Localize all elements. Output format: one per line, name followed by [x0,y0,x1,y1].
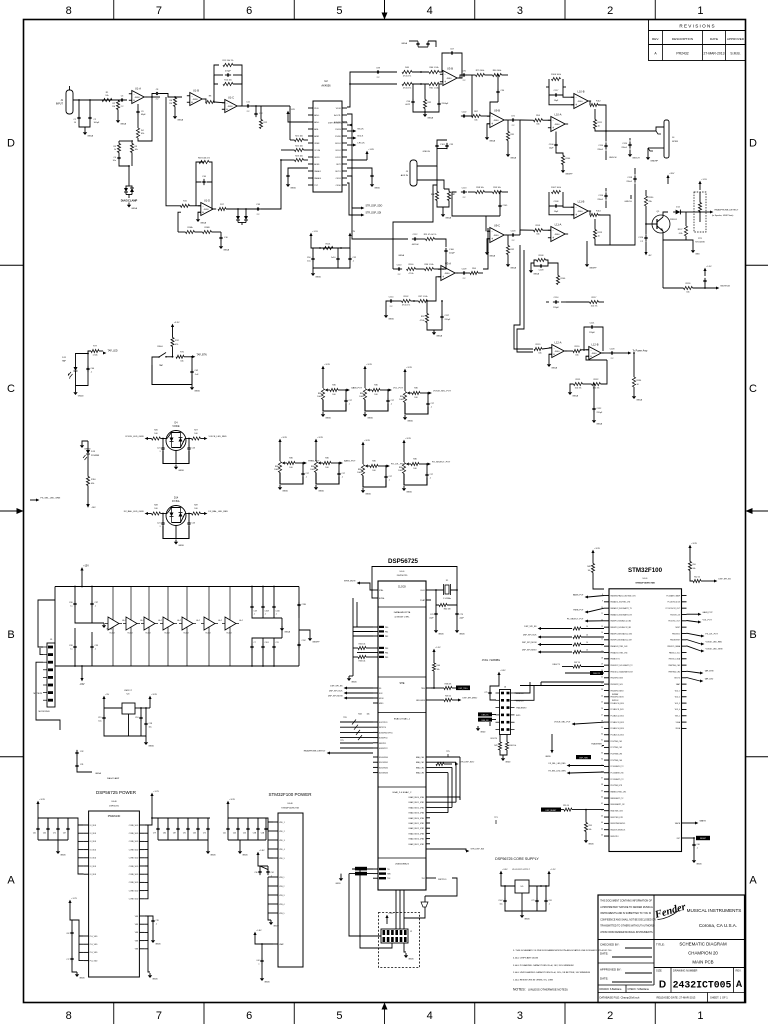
ground buffer far right [299,630,310,636]
svg-text:CKS1: CKS1 [336,178,342,180]
svg-text:SDTO: SDTO [335,171,341,173]
svg-text:4560: 4560 [578,101,584,103]
svg-text:1. ALL RESISTORS IN OHMS, 5%,: 1. ALL RESISTORS IN OHMS, 5%, 1/8W [513,979,554,982]
svg-text:GNDD: GNDD [242,854,248,856]
resistor R132 [592,382,601,385]
svg-text:DESCRIPTION: DESCRIPTION [672,37,693,41]
IC U7 power block [278,813,303,967]
svg-text:C11C: C11C [302,640,307,642]
svg-text:10k: 10k [575,355,578,357]
net label TAP_LED [99,350,103,352]
svg-text:LRCLK: LRCLK [358,143,366,145]
svg-text:SIZE: SIZE [656,969,662,973]
net label VOL_POT [389,389,392,392]
svg-text:R36: R36 [413,459,416,461]
svg-text:FX_BAL_LED_RED: FX_BAL_LED_RED [209,510,229,513]
resistor R91b [426,237,435,240]
capacitor C12 [255,111,257,114]
power +1.8V codec right [366,154,368,160]
power +1.5V small [310,236,312,242]
dsp pwr right caps [144,803,152,825]
svg-text:+3.3V: +3.3V [151,694,157,696]
svg-text:10pF: 10pF [554,100,559,102]
resistor R3 [130,144,133,153]
jtag left labels [478,712,492,716]
svg-text:C23: C23 [192,448,195,450]
svg-text:ESAI2_SDO3_LPB3: ESAI2_SDO3_LPB3 [409,832,424,835]
svg-text:GNDA: GNDA [445,216,451,219]
svg-text:ESAI2_SDO2_LPB2: ESAI2_SDO2_LPB2 [409,806,424,809]
aux jack J3 [410,160,417,186]
ground A1 [413,105,439,113]
capacitor C81 core [545,898,547,901]
svg-text:MICROPHN: MICROPHN [39,711,50,713]
svg-text:10k: 10k [589,829,592,831]
ground U9B [487,124,490,135]
IC U7 STM32F100 main [609,589,682,852]
resistor R111 [593,120,596,129]
revisions table [649,20,746,61]
ground jtag [489,722,491,726]
svg-text:4560: 4560 [445,273,451,275]
svg-text:100: 100 [332,394,335,396]
svg-text:TP1: TP1 [494,817,497,819]
svg-text:+1.8V: +1.8V [256,930,262,932]
svg-text:10u: 10u [98,721,101,723]
svg-text:DSP56725 POWER: DSP56725 POWER [96,790,137,795]
svg-text:GNDA: GNDA [436,334,442,337]
svg-text:27: 27 [601,714,603,716]
svg-text:10k: 10k [105,95,108,97]
svg-text:SCKR/HCKT/PC5: SCKR/HCKT/PC5 [379,732,393,734]
svg-text:+3.3V: +3.3V [594,548,600,550]
svg-text:VSS_3: VSS_3 [279,895,284,897]
resistor R131 [574,382,583,385]
sig fx lvl pot right [687,633,702,636]
svg-text:STR_DSP_SDI: STR_DSP_SDI [366,213,382,215]
capacitor filter VOL_POT [387,398,389,401]
capacitor C42 [191,369,193,372]
diode D1 [124,188,128,192]
wire to bus [261,160,281,209]
spi rows stm [538,627,541,630]
buffer out caps right C7 [251,644,253,647]
capacitor C9 feedback [137,109,139,112]
svg-text:JTAG/DEBUG: JTAG/DEBUG [395,863,409,866]
svg-text:220pF: 220pF [449,253,455,255]
svg-text:DSP_TRIG: DSP_TRIG [459,688,469,690]
database file row [598,992,745,994]
feedback capacitor C36 [203,179,205,182]
svg-text:L10-A: L10-A [555,112,562,116]
feedback resistor R79 [476,73,485,76]
dsp she pins left [373,687,378,689]
capacitor C110b [396,268,399,270]
svg-text:PC7/TIM3_CH2: PC7/TIM3_CH2 [611,747,623,749]
title block [598,895,745,1003]
svg-text:4558: 4558 [228,106,234,108]
svg-text:GNDHP: GNDHP [565,173,573,175]
wire feedback U1C [214,65,219,84]
codec control label [349,124,352,127]
resistor R101s [323,246,333,249]
net label VOICE_SEL_POT [429,392,432,395]
svg-text:GNDD: GNDD [365,493,371,495]
sig dsp spi ss right [701,580,714,582]
potentiometer VOICE_SEL_POT [403,392,406,403]
net label TAP_BTN [184,356,192,358]
svg-text:FSR/PC1: FSR/PC1 [379,743,386,745]
svg-text:15: 15 [601,638,603,640]
boxed label dsp jtag [576,755,591,759]
svg-text:C101: C101 [265,642,269,644]
wire R16 chain [178,212,181,232]
svg-text:100: 100 [325,467,328,469]
svg-text:R26: R26 [154,430,157,432]
capacitor C11B right [298,602,300,605]
svg-text:IO_VDD: IO_VDD [90,866,97,868]
wire power led [87,454,89,477]
svg-text:.1: .1 [265,614,267,616]
svg-text:C79: C79 [460,614,463,616]
svg-text:RST: RST [677,838,680,840]
wire core gnd rail [505,904,546,912]
svg-text:U1-D: U1-D [204,198,210,202]
resistor R52 stm [693,579,701,582]
svg-text:4560: 4560 [555,124,561,126]
svg-text:+3.3V: +3.3V [405,438,411,440]
svg-text:10: 10 [586,642,588,644]
resistor R23 codec in 3 [295,158,304,161]
power +3.3V for TREB_POT [279,442,281,461]
sig tap btn right [687,671,701,673]
svg-text:CORE_VDD: CORE_VDD [129,858,139,860]
svg-text:1M: 1M [169,103,172,105]
svg-text:SHEET: 1 OF 1: SHEET: 1 OF 1 [710,996,728,1000]
svg-text:5: 5 [336,5,342,17]
svg-text:+1V: +1V [351,231,355,233]
svg-text:47.0k 1%: 47.0k 1% [402,305,411,307]
svg-text:CORE_VDD: CORE_VDD [129,899,139,901]
svg-text:R27: R27 [194,430,197,432]
svg-text:3: 3 [517,1010,523,1022]
svg-text:CORE_VDD: CORE_VDD [129,882,139,884]
svg-text:PC14/OSC32_IN: PC14/OSC32_IN [668,602,681,604]
svg-text:R58: R58 [589,825,592,827]
svg-text:C17: C17 [342,473,345,475]
dsp pwr left pins pll [84,935,89,937]
svg-text:GNDA: GNDA [489,139,495,142]
dashed program header box [379,913,420,968]
svg-text:DIAG/CLAMP: DIAG/CLAMP [107,777,120,780]
svg-text:PB2/BOOT1: PB2/BOOT1 [611,659,620,661]
svg-text:JTAG / SWDBG: JTAG / SWDBG [482,658,500,662]
svg-text:46: 46 [601,835,603,837]
ground R134 [633,387,635,394]
svg-text:DSP/TDO: DSP/TDO [438,879,447,881]
capacitor C30 [74,601,76,604]
svg-text:-16V: -16V [91,507,96,509]
ground jack [647,155,649,157]
wire B1 to line [519,120,521,235]
zone tick top [384,0,386,20]
resistor R61 [429,82,439,85]
sig dsp trig label [456,686,470,691]
svg-text:10kB: 10kB [359,396,364,398]
sig dsp spi miso out [452,699,458,701]
regulator U5 box [515,880,529,893]
svg-text:VDD_1: VDD_1 [279,822,285,824]
svg-text:+: + [575,213,577,217]
svg-text:.1: .1 [159,451,161,453]
ground R58 [585,832,587,839]
svg-text:-: - [133,92,134,96]
svg-text:PB14/SPI2_MISO: PB14/SPI2_MISO [611,690,625,692]
resistor R130 [644,196,647,206]
svg-text:10u: 10u [113,160,116,162]
capacitor C105 [499,203,501,206]
svg-text:PB3: PB3 [385,648,388,650]
ground C78 [152,924,154,939]
svg-text:+1.2V: +1.2V [153,791,159,793]
svg-text:10kB: 10kB [398,470,403,472]
svg-text:DSP_SPI_SCK: DSP_SPI_SCK [329,691,343,693]
capacitor C1 [78,115,80,118]
zone tick top [113,0,115,20]
svg-text:TP5: TP5 [340,740,343,742]
resistor R48 stm [591,564,594,573]
input jack J1 [66,90,73,114]
capacitor C120 [629,141,631,144]
power +1.8V vbat [254,935,256,941]
svg-text:FX_SELECT_POT: FX_SELECT_POT [567,619,584,621]
svg-text:HEADPHONE_DETECT: HEADPHONE_DETECT [304,750,327,753]
resistor series VOL_POT [372,388,380,391]
power +5V reg [103,699,105,708]
svg-text:GNDA: GNDA [177,118,183,121]
svg-text:AUX IN: AUX IN [401,174,409,177]
svg-text:C79: C79 [153,833,156,835]
svg-text:DSP56725 CORE SUPPLY: DSP56725 CORE SUPPLY [495,857,539,861]
wire U1A out [147,96,161,98]
svg-text:MUSICAL INSTRUMENTS: MUSICAL INSTRUMENTS [687,908,742,913]
wire J5 to buffers [38,600,55,647]
resistor R92v a2 [425,314,428,323]
drawn row [598,984,654,986]
power +1.8V codec left [287,114,289,120]
svg-text:PD2/TIM3_ETR: PD2/TIM3_ETR [611,785,623,787]
reset row stm [541,808,561,812]
power +3.3V for FX_LVL_POT [362,445,364,464]
svg-text:R79 100k: R79 100k [476,70,485,72]
capacitor C11 [245,105,248,107]
svg-text:C15: C15 [98,717,101,719]
svg-text:Corona, CA U.S.A.: Corona, CA U.S.A. [699,923,737,928]
zone tick top [203,0,205,20]
svg-text:NRST: NRST [676,627,680,629]
svg-text:14: 14 [601,632,603,634]
wire FX_LVL_POT node [378,465,386,467]
svg-text:XTAL: XTAL [379,589,383,592]
svg-text:.1: .1 [430,478,432,480]
ground C40 [693,848,695,859]
svg-text:TAP: TAP [62,360,67,363]
sig dsp spi sck [344,692,347,695]
dsp esai1 data pins [373,756,378,758]
svg-text:GNDD: GNDD [408,958,414,960]
svg-text:GNDD: GNDD [524,918,530,920]
resistor series FX_SELECT_POT [411,462,419,465]
svg-text:30: 30 [601,733,603,735]
svg-text:SMAD0: SMAD0 [314,177,322,180]
svg-text:FX BAL: FX BAL [172,500,181,503]
svg-text:GNDD: GNDD [588,843,594,845]
svg-text:FST/PC4: FST/PC4 [379,727,386,729]
capacitor C38b [74,644,76,647]
svg-text:PLL_VDD: PLL_VDD [90,960,98,962]
svg-text:10k: 10k [538,353,541,355]
wire header gnd [404,943,406,952]
net label FX_BAL_LED_GRN [148,513,152,515]
svg-text:C107: C107 [498,900,502,902]
net label VOICE_LED_RED [201,438,205,440]
svg-text:6: 6 [246,1010,252,1022]
wire crystal loop [431,589,444,591]
svg-text:34: 34 [601,759,603,761]
svg-text:3. ALL POLARIZED CAPACITORS I: 3. ALL POLARIZED CAPACITORS IN uF, 16V, … [513,964,574,967]
svg-text:47.0k: 47.0k [409,273,414,275]
reset net right [687,837,695,839]
svg-text:.2: .2 [156,924,157,926]
svg-text:R36: R36 [332,385,335,387]
svg-text:9: 9 [602,600,603,602]
svg-text:220uF: 220uF [621,147,627,149]
svg-text:TAP_BTN: TAP_BTN [197,353,208,356]
ground C122 [593,412,595,419]
resistor R117 [590,300,599,303]
capacitor C2 [89,115,91,118]
svg-text:VDD_3: VDD_3 [279,840,285,842]
resistor R22 codec in 2 [295,148,304,151]
wire tap led loop [75,371,77,386]
svg-text:CHAMPION 20: CHAMPION 20 [688,951,718,956]
resistor R87 [447,192,450,201]
sig fx select pot stm [585,620,588,623]
resistor R96b out [470,271,478,274]
wire jack sleeve [648,147,664,149]
svg-text:INSTRUMENTS AND IS SUBMITTED T: INSTRUMENTS AND IS SUBMITTED TO YOU IN [600,912,651,915]
power +26V [667,178,669,184]
svg-text:4560: 4560 [447,78,453,80]
ground header [405,953,407,955]
ground C114 [386,301,389,313]
op-amp L12-B [589,347,601,360]
svg-text:GNDD: GNDD [480,731,486,733]
svg-text:A: A [749,875,757,887]
resistor R110 power led [86,477,89,486]
svg-text:TL072: TL072 [127,633,132,635]
net label FX_SEL edge [36,499,39,502]
potentiometer VOL_POT [363,389,366,400]
svg-text:C17: C17 [389,476,392,478]
ground aux [437,201,449,208]
svg-text:D: D [659,980,666,991]
svg-text:AK4556: AK4556 [321,84,331,88]
wire pll pins [70,920,84,936]
svg-text:C: C [749,383,757,395]
svg-text:25: 25 [601,702,603,704]
svg-text:4: 4 [427,5,433,17]
svg-text:GNDD: GNDD [388,318,394,320]
svg-text:C41: C41 [223,833,226,835]
svg-text:MUTECB: MUTECB [34,693,43,695]
capacitor D14 FX BAL b [188,520,190,523]
capacitor C110 rail [605,142,607,145]
ground dsp left bus [349,675,353,677]
sig headphone detect dsp [327,752,330,755]
resistor R92v [506,246,509,255]
svg-text:IO_VDD: IO_VDD [90,858,97,860]
signal STR_DSP_SDI [347,183,361,215]
ground D4 VOICE [175,465,177,467]
svg-text:+3.3V: +3.3V [317,437,323,439]
svg-text:DSP_SPI_MISO: DSP_SPI_MISO [463,698,478,700]
svg-text:62k: 62k [141,133,144,135]
svg-text:C84: C84 [163,833,166,835]
svg-text:AOUTL: AOUTL [334,114,342,117]
svg-text:PB2: PB2 [385,636,388,638]
svg-text:VOL_POT: VOL_POT [393,388,404,390]
svg-text:VOL_POT: VOL_POT [703,620,713,622]
svg-text:7: 7 [156,1010,162,1022]
capacitor C106b [445,248,447,251]
svg-text:GNDA: GNDA [87,134,93,137]
svg-text:DATE: DATE [710,37,718,41]
svg-text:R106 100k: R106 100k [551,74,561,76]
potentiometer GAIN_POT [321,389,324,400]
svg-text:100: 100 [414,397,417,399]
svg-text:220uF: 220uF [597,149,603,151]
resistor R1 [102,98,112,101]
ground tap led [75,386,77,391]
svg-text:C40: C40 [697,844,700,846]
ground BASS_POT [315,485,317,487]
svg-text:ESAI2_SDO0_LPB0: ESAI2_SDO0_LPB0 [409,838,424,841]
svg-text:SDTI: SDTI [336,164,341,166]
zone tick top [293,0,295,20]
capacitor C114 box [553,301,556,303]
svg-text:10pF: 10pF [549,148,554,150]
svg-text:AINR: AINR [314,135,319,138]
svg-text:GNDA: GNDA [489,254,495,257]
wire buffer caps mid [75,607,104,624]
svg-text:68pF: 68pF [141,114,146,116]
capacitor filter TREB_POT [302,471,304,474]
ground reg [145,740,147,742]
svg-text:-8V: -8V [648,255,652,257]
svg-text:1u: 1u [70,606,72,608]
resistor R87b [472,114,481,117]
svg-text:5: 5 [336,1010,342,1022]
ground TREB_POT [279,485,281,487]
wire to ground FX_SELECT_POT [404,474,427,486]
svg-text:VDD_2: VDD_2 [675,697,680,699]
svg-text:19: 19 [601,664,603,666]
svg-text:TRACESWO: TRACESWO [516,707,527,710]
svg-text:R50: R50 [693,564,696,566]
svg-text:AVSS: AVSS [314,163,320,166]
svg-text:37: 37 [601,778,603,780]
